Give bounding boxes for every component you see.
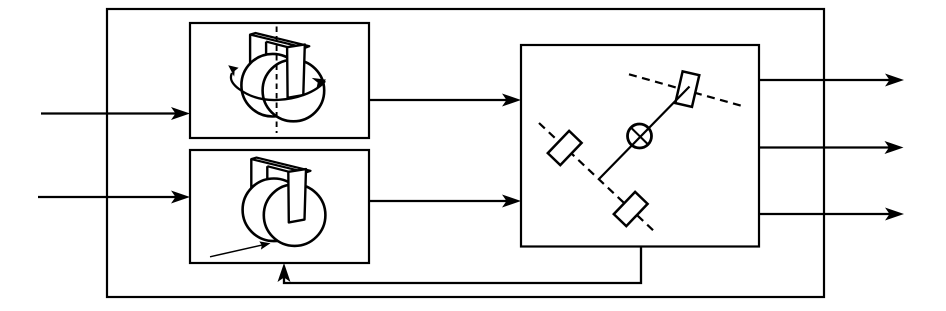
input arrow 2 (wire) [38, 196, 176, 198]
static resonator icon [243, 158, 326, 246]
rotation arrow arc [231, 73, 325, 100]
dashed beam axis (diagonal) [539, 123, 656, 233]
input arrow 1 (wire) [41, 112, 176, 114]
pointer arrow to sphere [210, 245, 263, 257]
feedback wire [284, 247, 641, 284]
modulator symbol (circled X) [628, 124, 652, 148]
beam line [600, 87, 690, 179]
block: rotating spherical resonator [190, 23, 369, 138]
wire: bottom block to optics box [369, 200, 507, 202]
rotation axis (dashed) [276, 27, 278, 134]
optical element 2 (waveplate) [614, 192, 648, 226]
optics box [521, 45, 759, 247]
output arrow 2 [759, 146, 890, 148]
optical element 1 (waveplate) [548, 131, 582, 165]
output arrow 1 [759, 79, 890, 81]
rotating resonator icon [241, 33, 324, 121]
block: static spherical resonator [190, 150, 369, 263]
dashed axis through output element [629, 74, 741, 105]
optical element 3 (tilted plate) [675, 71, 699, 107]
outer system box [107, 9, 824, 297]
wire: top block to optics box [369, 99, 507, 101]
output arrow 3 [759, 213, 890, 215]
